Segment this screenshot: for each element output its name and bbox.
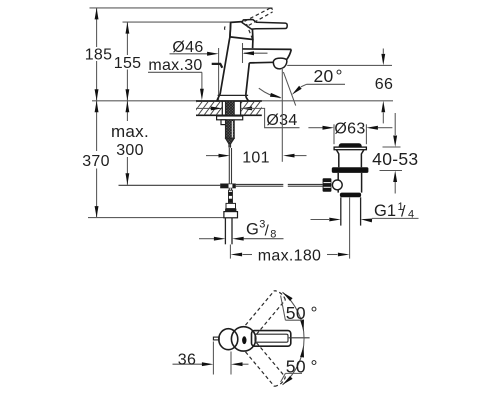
max300 lower reference line	[119, 184, 221, 186]
svg-text:20: 20	[314, 66, 334, 86]
arc arrowhead upper end	[283, 292, 293, 301]
label max.30	[148, 57, 202, 74]
arc arrowhead lower middle	[300, 346, 304, 358]
dimension 155 line	[126, 22, 130, 101]
dimension max180	[231, 253, 350, 257]
top view lever outer	[252, 331, 291, 347]
rod below clamp	[229, 188, 231, 191]
svg-text:370: 370	[82, 153, 110, 170]
svg-text:°: °	[336, 66, 343, 86]
dimension 66	[381, 49, 385, 124]
dimension 36	[173, 362, 249, 366]
waste body upper	[336, 150, 364, 168]
G38 fitting	[224, 203, 238, 217]
mounting hole walls	[222, 101, 240, 115]
horizontal rod right of break	[288, 184, 323, 186]
dimension D63 arrows	[308, 126, 392, 130]
rod lower section	[228, 190, 233, 203]
label 50deg lower	[281, 356, 318, 382]
dimension G114 arrows	[311, 218, 419, 223]
lever rest height reference line	[123, 21, 232, 23]
lowered lever top view dashed -50	[246, 343, 286, 387]
raised lever dashed outline	[225, 8, 273, 38]
svg-text:66: 66	[375, 76, 393, 93]
dimension 40-53	[393, 113, 397, 194]
top reference line (lever raised height)	[90, 7, 273, 9]
swing arc	[283, 292, 305, 385]
waste coupling band	[340, 193, 361, 198]
temperature stop tab	[212, 64, 223, 68]
dimension D46 label	[172, 39, 203, 56]
20deg arc	[259, 88, 282, 98]
label 40-53	[372, 149, 418, 169]
waste axis extension	[349, 198, 351, 259]
svg-text:°: °	[311, 356, 318, 376]
svg-text:8: 8	[270, 229, 276, 241]
label 20deg	[314, 66, 343, 86]
spout aerator beak	[273, 58, 287, 69]
top view body circle	[231, 327, 255, 351]
deck hatching right	[232, 101, 267, 115]
label D34	[266, 112, 297, 129]
faucet axis extension	[229, 245, 231, 259]
label max180	[258, 248, 321, 265]
label 66	[375, 76, 393, 93]
cartridge housing	[230, 21, 253, 40]
waste flange dome	[339, 143, 362, 147]
top view lever inner	[255, 334, 288, 342]
outlet vertical reference line	[281, 68, 283, 162]
waste lever knob	[323, 178, 332, 192]
waste locking nut	[332, 167, 369, 173]
body right edge lower	[246, 63, 249, 101]
dimension D34 arrows	[196, 107, 300, 128]
svg-text:101: 101	[242, 150, 270, 167]
washer left step	[221, 120, 226, 125]
flexible hose lines	[225, 218, 232, 245]
deck top line	[196, 100, 262, 102]
36 extension lines	[213, 342, 231, 375]
label 155	[114, 55, 142, 72]
label 370	[82, 153, 110, 170]
faucet body left edge	[217, 22, 231, 101]
svg-text:max.: max.	[111, 122, 149, 141]
label 50deg upper	[281, 296, 318, 323]
spout end face	[287, 49, 292, 59]
arc arrowhead upper middle	[300, 320, 304, 332]
svg-text:Ø63: Ø63	[334, 121, 365, 138]
370 bottom reference line	[88, 217, 224, 219]
dimension G38 arrows	[199, 237, 284, 241]
arc arrowhead lower end	[283, 376, 293, 385]
top view spout circle	[219, 329, 238, 350]
dimension 370 line	[95, 101, 99, 218]
20deg leader	[292, 84, 345, 95]
label D63	[334, 121, 365, 138]
lever handle	[242, 20, 287, 30]
svg-text:40-53: 40-53	[372, 149, 418, 169]
waste body lower	[338, 173, 361, 193]
threaded shank in deck	[225, 101, 234, 116]
spout bottom line	[249, 61, 273, 64]
top view lever pin	[242, 336, 246, 344]
waste flange lip	[334, 147, 366, 150]
top view spout outlet tick	[213, 337, 219, 340]
body right edge upper	[252, 40, 254, 49]
rod clamp cross	[220, 184, 236, 189]
svg-text:max.180: max.180	[258, 248, 321, 265]
svg-text:4: 4	[408, 209, 414, 221]
svg-text:°: °	[311, 303, 318, 323]
waste tailpiece	[341, 197, 361, 225]
label 185	[85, 47, 113, 64]
raised lever top view dashed +50	[246, 291, 286, 335]
svg-text:300: 300	[116, 142, 144, 159]
spout top line	[243, 48, 292, 50]
horizontal rod left of break	[236, 184, 283, 186]
waste ball joint	[332, 180, 342, 190]
deck level extension line left	[92, 100, 197, 102]
dimension 185 line	[95, 8, 99, 101]
svg-text:G: G	[246, 221, 259, 239]
pop-up rod	[229, 148, 231, 183]
spout outlet level reference line	[287, 64, 392, 66]
label G114	[374, 201, 414, 221]
svg-text:185: 185	[85, 47, 113, 64]
label 101	[242, 150, 270, 167]
dimension 101	[206, 154, 307, 158]
label 36	[178, 351, 196, 368]
20deg slanted line	[283, 72, 295, 106]
deck level extension line right	[262, 100, 394, 102]
svg-text:/: /	[401, 204, 406, 221]
40-53 extension ticks	[380, 147, 403, 171]
svg-text:36: 36	[178, 351, 196, 368]
svg-text:G1: G1	[374, 202, 396, 220]
label max 300	[111, 122, 149, 159]
max.30 leader	[148, 72, 204, 100]
label G38	[246, 218, 276, 240]
deck hatching left	[186, 101, 227, 115]
svg-text:155: 155	[114, 55, 142, 72]
threaded shank below washer	[225, 120, 234, 147]
top view lever centerline	[289, 337, 310, 339]
faucet base line	[218, 94, 249, 96]
dimension D46 lines	[170, 43, 268, 101]
svg-text:max.30: max.30	[148, 57, 202, 74]
dimension max300 line	[126, 101, 130, 185]
horseshoe washer	[217, 116, 243, 120]
D63 extension lines	[334, 124, 366, 144]
deck bottom line	[196, 114, 262, 116]
